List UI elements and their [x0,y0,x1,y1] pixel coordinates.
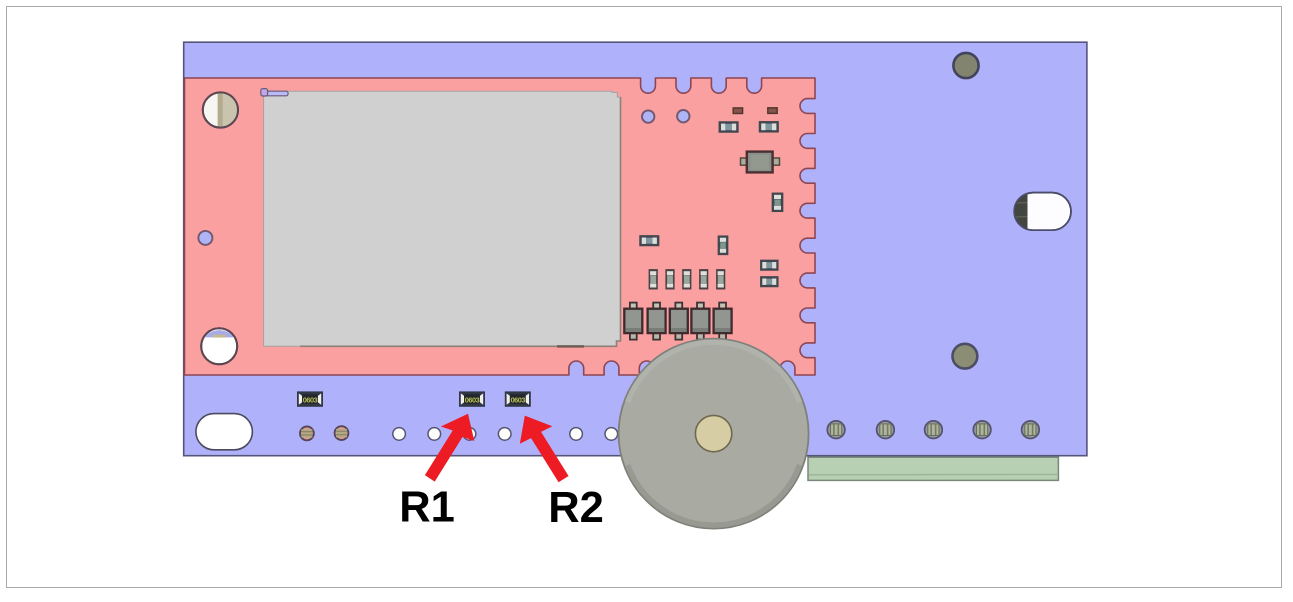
capacitor V2 [718,236,727,254]
hole H6 [570,428,583,441]
resistor R1 [460,392,484,406]
resistor H3 [640,236,659,246]
resistor RV3 [683,270,691,289]
resistor H1 [719,122,738,132]
diode DS3 [670,303,688,340]
oblong slot bottom-left [196,414,253,450]
buzzer BZ1 [619,339,809,529]
bottom row [298,392,1039,440]
plated hole P1 [300,427,314,441]
resistor H2 [760,122,779,132]
resistor H4 [761,260,778,270]
resistor RV2 [666,270,674,289]
pink board components [624,108,782,340]
lcd top connector tab [264,91,289,96]
oblong slot right [1014,193,1071,231]
plated hole P2 [335,426,349,440]
diode DS4 [691,303,709,340]
hole under notch B [677,110,689,122]
resistor H5 [761,277,778,287]
svg-text:R2: R2 [548,484,604,532]
svg-text:0603: 0603 [303,395,318,404]
annotations [399,414,604,533]
pin J4 [973,421,991,439]
big white hole bottom-left [201,328,237,364]
resistor R2 [506,392,530,406]
hole H7 [605,428,618,441]
small hole mid-left [198,231,212,245]
capacitor V1 [772,193,782,211]
dark screw hole top-right [953,53,978,78]
resistor R3 (unlabeled) [298,392,322,406]
resistor RV4 [700,270,708,289]
green connector J6 [808,457,1058,480]
diode DS2 [648,303,666,340]
hole H3 [463,428,476,441]
diode DS1 [624,303,642,340]
purple board features [196,53,1071,450]
hole under notch A [642,110,654,122]
transistor Q1 [741,152,780,173]
resistor RV1 [649,270,657,289]
lcd bottom connector line [557,345,584,347]
svg-text:R1: R1 [399,483,455,531]
buzzer center hole [695,415,731,451]
pin J3 [925,421,943,439]
purple PCB board [184,42,1087,456]
chip D2 (small brown) [768,108,777,114]
LCD screen [261,89,621,348]
pin J1 [827,421,845,439]
dark screw hole bottom-right [953,344,978,369]
arrow to R2 [520,416,569,483]
pin J2 [877,421,895,439]
svg-text:0603: 0603 [511,395,526,404]
pink board holes [198,92,689,364]
screw head top-left [203,92,238,127]
pin J5 [1022,421,1040,439]
resistor RV5 [717,270,725,289]
hole H4 [498,428,511,441]
arrow to R1 [425,414,474,482]
svg-text:0603: 0603 [465,395,480,404]
hole H1 [393,428,406,441]
chip D1 (small brown) [733,108,742,114]
pink module board (castellated) [185,78,816,375]
diode DS5 [714,303,732,340]
hole H2 [428,428,441,441]
